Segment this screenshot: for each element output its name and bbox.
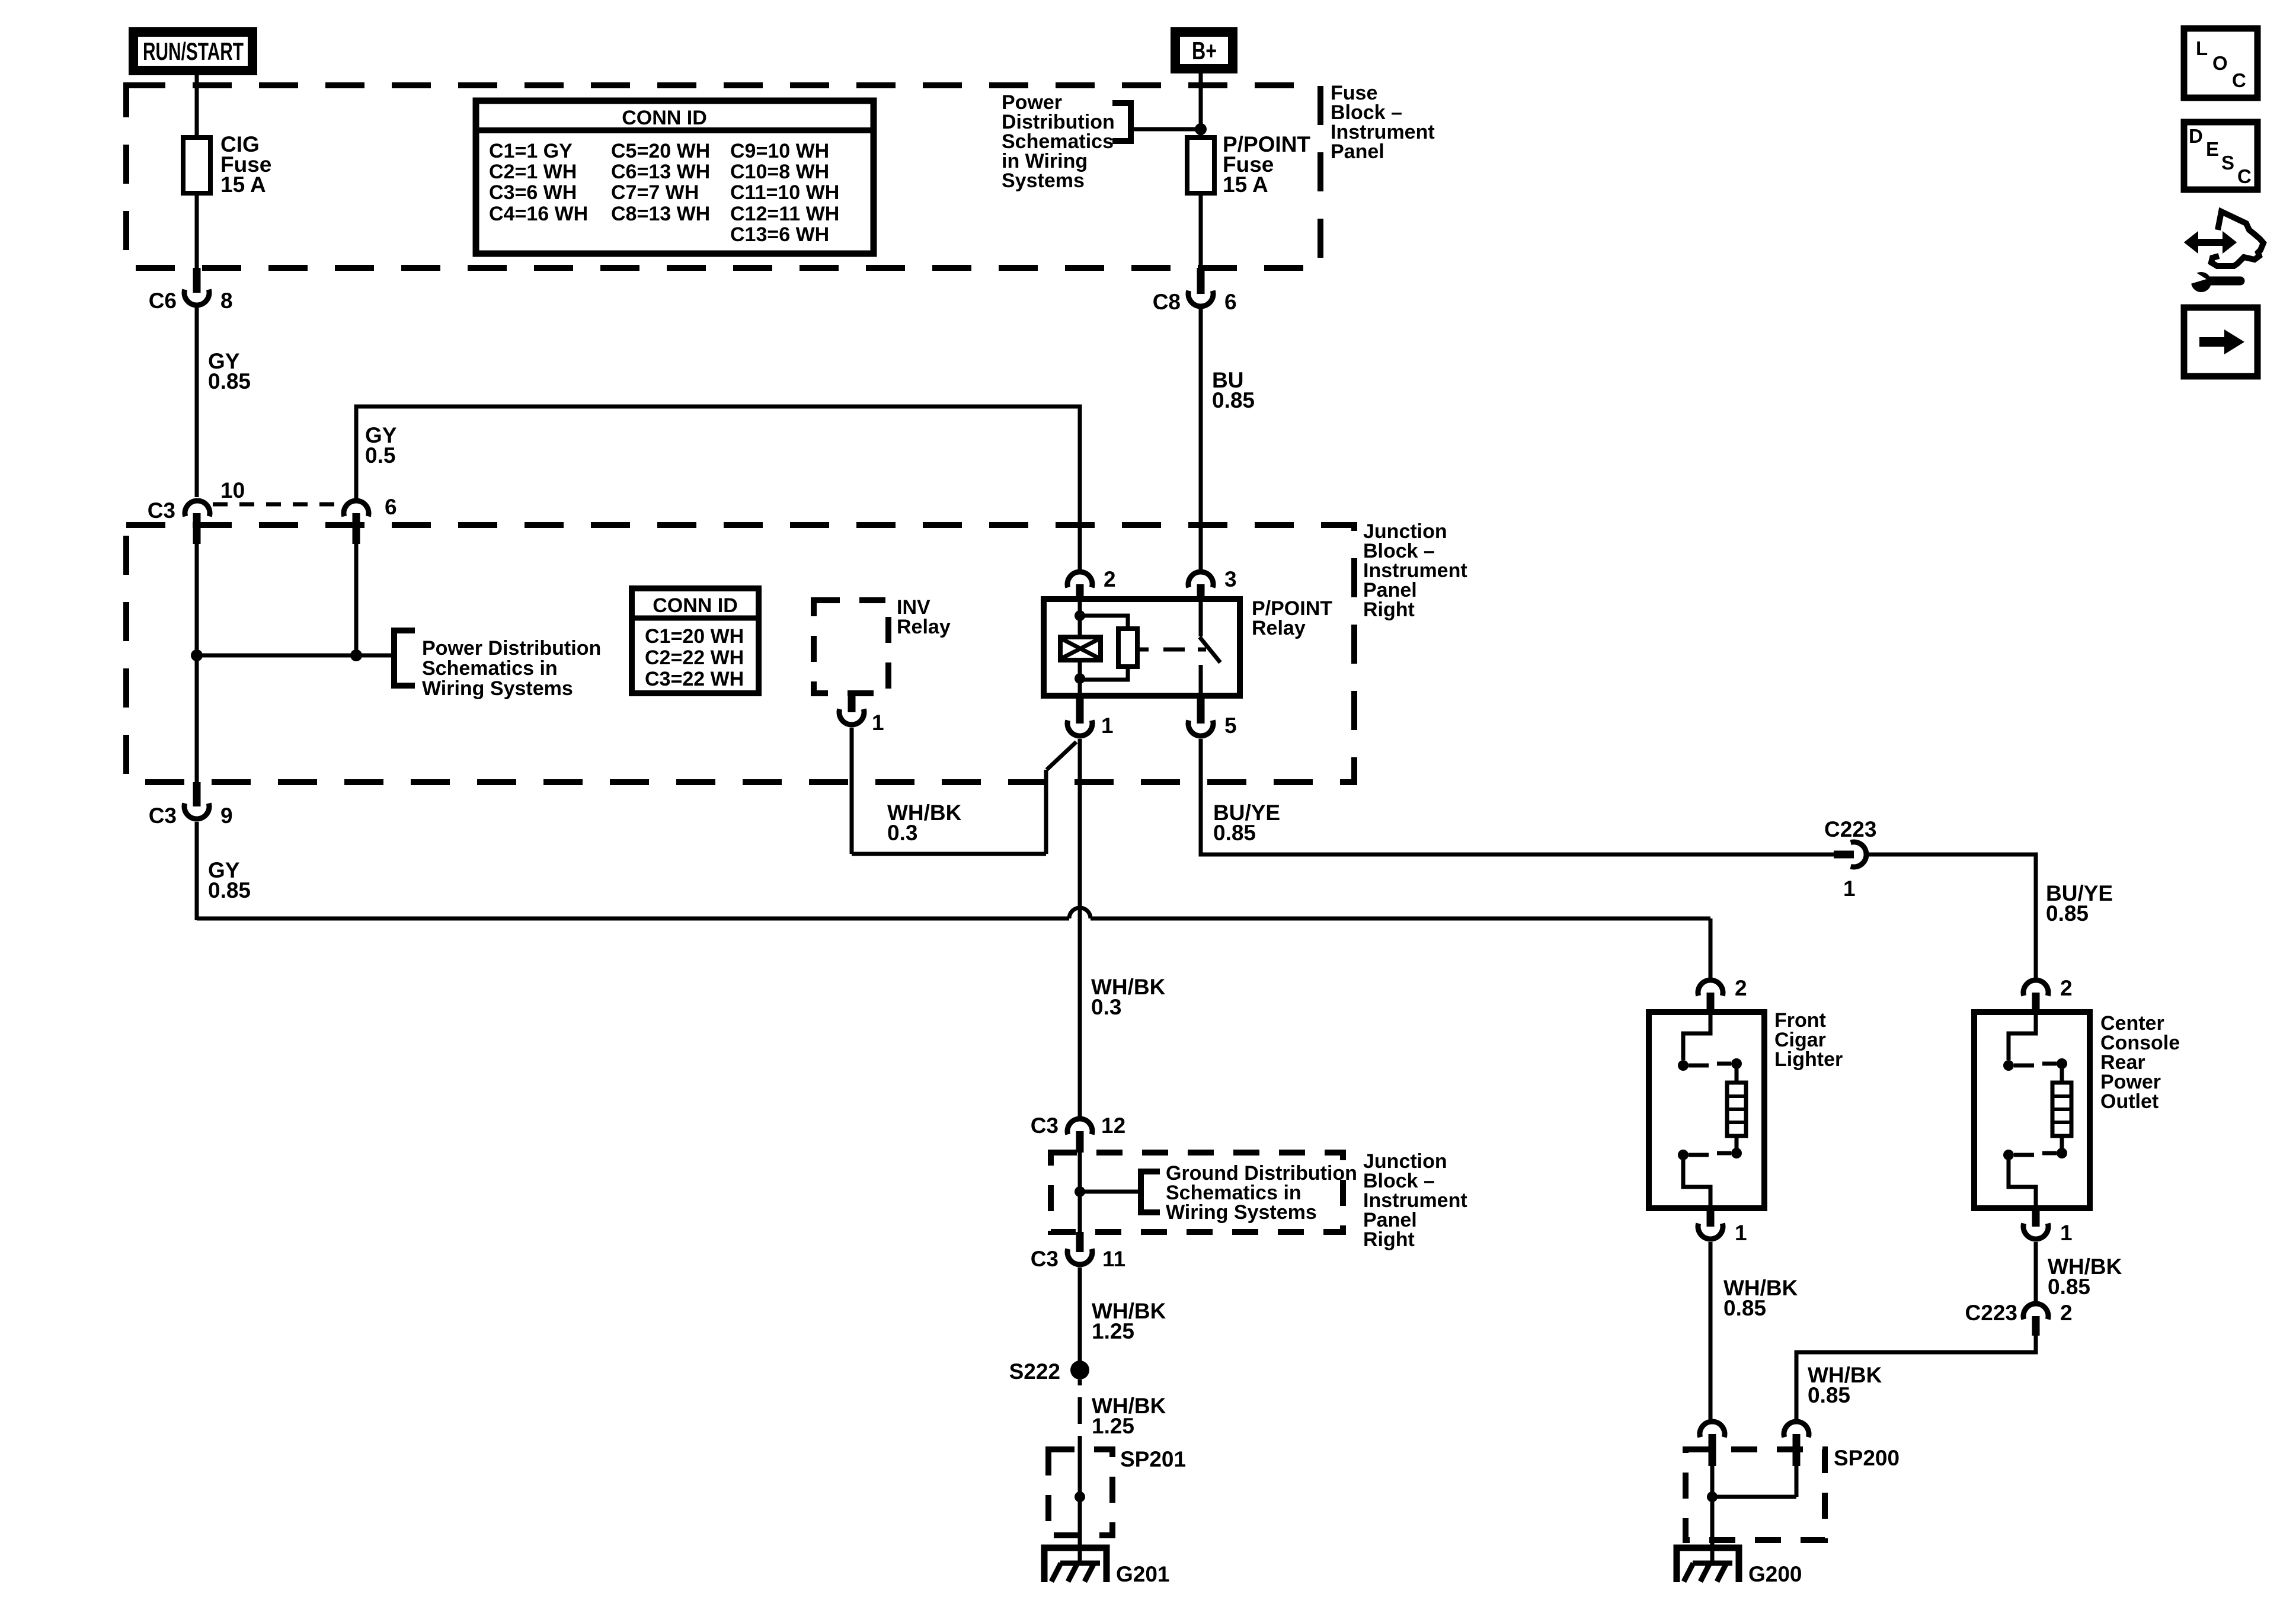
svg-text:Right: Right xyxy=(1363,598,1415,621)
svg-text:1: 1 xyxy=(1101,713,1114,738)
svg-text:C10=8 WH: C10=8 WH xyxy=(730,161,829,183)
svg-text:C3: C3 xyxy=(148,498,175,523)
svg-text:C2=22 WH: C2=22 WH xyxy=(645,646,744,669)
svg-text:6: 6 xyxy=(1224,290,1237,314)
svg-text:C2=1 WH: C2=1 WH xyxy=(489,161,577,183)
svg-text:0.85: 0.85 xyxy=(1212,388,1255,412)
svg-text:C8: C8 xyxy=(1153,290,1181,314)
svg-text:C1=20 WH: C1=20 WH xyxy=(645,625,744,648)
svg-text:2: 2 xyxy=(1735,976,1747,1000)
svg-text:2: 2 xyxy=(2060,976,2073,1000)
svg-text:1: 1 xyxy=(1735,1221,1747,1245)
svg-text:0.85: 0.85 xyxy=(1808,1383,1850,1407)
svg-text:SP201: SP201 xyxy=(1120,1447,1186,1471)
svg-text:C: C xyxy=(2232,69,2246,91)
svg-text:O: O xyxy=(2212,52,2228,74)
svg-text:Right: Right xyxy=(1363,1228,1415,1251)
svg-text:C1=1 GY: C1=1 GY xyxy=(489,140,573,162)
svg-text:0.85: 0.85 xyxy=(208,369,251,393)
svg-text:15 A: 15 A xyxy=(1223,172,1268,197)
svg-text:1.25: 1.25 xyxy=(1092,1414,1134,1438)
svg-text:C6: C6 xyxy=(149,289,177,313)
svg-text:Wiring Systems: Wiring Systems xyxy=(422,677,573,700)
svg-text:0.85: 0.85 xyxy=(2048,1275,2090,1299)
svg-text:C3: C3 xyxy=(1031,1247,1059,1271)
svg-text:C223: C223 xyxy=(1824,817,1876,841)
svg-text:E: E xyxy=(2206,138,2219,160)
svg-text:2: 2 xyxy=(1104,567,1116,591)
svg-text:L: L xyxy=(2196,37,2208,59)
svg-text:Relay: Relay xyxy=(897,616,951,638)
svg-text:1: 1 xyxy=(1843,876,1856,901)
svg-text:C6=13 WH: C6=13 WH xyxy=(611,161,710,183)
svg-text:G200: G200 xyxy=(1748,1562,1802,1586)
svg-text:1: 1 xyxy=(872,710,884,735)
svg-text:9: 9 xyxy=(220,804,233,828)
svg-text:8: 8 xyxy=(220,289,233,313)
svg-text:Lighter: Lighter xyxy=(1774,1048,1843,1071)
svg-text:C12=11 WH: C12=11 WH xyxy=(730,203,839,225)
svg-text:5: 5 xyxy=(1224,713,1237,738)
svg-text:6: 6 xyxy=(385,495,397,519)
svg-text:C3=6 WH: C3=6 WH xyxy=(489,181,577,204)
svg-text:D: D xyxy=(2189,125,2203,147)
svg-text:S: S xyxy=(2221,152,2234,174)
svg-text:S222: S222 xyxy=(1009,1359,1060,1384)
svg-text:C13=6 WH: C13=6 WH xyxy=(730,223,829,246)
svg-text:10: 10 xyxy=(220,478,245,502)
svg-text:C4=16 WH: C4=16 WH xyxy=(489,203,588,225)
svg-text:15 A: 15 A xyxy=(220,172,266,197)
svg-text:C3: C3 xyxy=(149,804,177,828)
svg-text:C223: C223 xyxy=(1965,1301,2017,1325)
svg-text:C7=7 WH: C7=7 WH xyxy=(611,181,699,204)
svg-text:C: C xyxy=(2237,165,2252,187)
svg-text:0.3: 0.3 xyxy=(1091,995,1121,1019)
svg-text:C8=13 WH: C8=13 WH xyxy=(611,203,710,225)
svg-text:C11=10 WH: C11=10 WH xyxy=(730,181,839,204)
svg-text:3: 3 xyxy=(1224,567,1237,591)
svg-text:C3=22 WH: C3=22 WH xyxy=(645,668,744,690)
svg-text:12: 12 xyxy=(1101,1113,1125,1138)
svg-text:0.85: 0.85 xyxy=(1723,1296,1766,1320)
svg-text:0.85: 0.85 xyxy=(1213,821,1256,845)
svg-text:C9=10 WH: C9=10 WH xyxy=(730,140,829,162)
svg-text:0.85: 0.85 xyxy=(208,878,251,902)
svg-text:1.25: 1.25 xyxy=(1092,1319,1134,1343)
svg-text:CONN ID: CONN ID xyxy=(622,107,707,129)
svg-text:0.85: 0.85 xyxy=(2046,901,2089,926)
svg-text:Schematics in: Schematics in xyxy=(422,657,558,680)
svg-text:C5=20 WH: C5=20 WH xyxy=(611,140,710,162)
svg-text:1: 1 xyxy=(2060,1221,2073,1245)
svg-text:Wiring Systems: Wiring Systems xyxy=(1166,1201,1317,1224)
svg-text:0.5: 0.5 xyxy=(365,443,395,468)
svg-text:2: 2 xyxy=(2060,1301,2073,1325)
svg-text:11: 11 xyxy=(1102,1247,1125,1271)
svg-text:C3: C3 xyxy=(1031,1113,1059,1138)
svg-text:Outlet: Outlet xyxy=(2100,1090,2159,1113)
svg-text:Panel: Panel xyxy=(1331,140,1384,163)
svg-text:CONN ID: CONN ID xyxy=(653,594,738,617)
svg-text:Power Distribution: Power Distribution xyxy=(422,637,601,660)
svg-text:Systems: Systems xyxy=(1002,169,1085,192)
svg-text:Relay: Relay xyxy=(1252,617,1306,639)
svg-text:G201: G201 xyxy=(1116,1562,1170,1586)
svg-text:B+: B+ xyxy=(1192,37,1217,65)
svg-text:RUN/START: RUN/START xyxy=(143,37,244,65)
svg-text:SP200: SP200 xyxy=(1834,1446,1900,1470)
svg-text:0.3: 0.3 xyxy=(887,821,917,845)
